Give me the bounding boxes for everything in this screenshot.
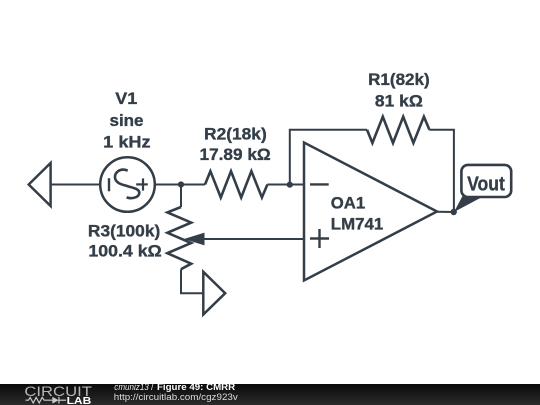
svg-text:100.4 kΩ: 100.4 kΩ [88, 242, 161, 261]
wire op-amp output [437, 211, 454, 213]
svg-text:V1: V1 [115, 89, 137, 108]
svg-text:R3(100k): R3(100k) [88, 221, 160, 240]
svg-text:81 kΩ: 81 kΩ [375, 91, 423, 110]
svg-text:R2(18k): R2(18k) [204, 124, 267, 143]
node Vout [451, 209, 457, 215]
footer bar [0, 384, 540, 405]
wire V1 to node A [155, 184, 181, 186]
net flag (left) [29, 163, 51, 206]
svg-text:1 kHz: 1 kHz [103, 132, 150, 151]
op-amp OA1 [304, 143, 437, 281]
potentiometer R3 body [167, 207, 191, 269]
op-amp minus symbol [310, 183, 329, 185]
svg-text:http://circuitlab.com/cgz923v: http://circuitlab.com/cgz923v [114, 392, 239, 402]
svg-text:sine: sine [110, 111, 144, 130]
resistor R2 [205, 171, 267, 197]
svg-text:LAB: LAB [67, 396, 92, 405]
wire feedback up and left [290, 130, 367, 185]
wire R1 to output node [429, 130, 454, 212]
svg-text:R1(82k): R1(82k) [368, 70, 430, 89]
resistor R1 [367, 117, 429, 143]
net flag (bottom) [203, 272, 225, 315]
potentiometer R3 wiper arrow [184, 233, 205, 246]
flag Vout box [461, 165, 511, 197]
wire wiper to op-amp non-inverting input [203, 238, 305, 240]
wire R2 to op-amp inverting input [267, 184, 304, 186]
flag Vout tail [454, 196, 484, 212]
node A [178, 181, 184, 187]
wire node A down to R3 [180, 185, 182, 208]
svg-text:LM741: LM741 [331, 215, 384, 234]
svg-text:Vout: Vout [467, 173, 505, 196]
op-amp plus symbol [310, 237, 329, 239]
footer logo diode triangle [52, 397, 58, 404]
wire flag to V1 [51, 184, 101, 186]
node B [287, 182, 293, 188]
wire node A to R2 [181, 184, 205, 186]
footer logo schematic squiggle [26, 397, 67, 404]
svg-text:Figure 49: CMRR: Figure 49: CMRR [157, 382, 236, 392]
svg-text:OA1: OA1 [331, 194, 365, 213]
wire R3 bottom to net flag [181, 269, 203, 293]
svg-text:cmuniz13: cmuniz13 [114, 382, 149, 392]
voltage source V1 [100, 157, 155, 212]
svg-text:17.89 kΩ: 17.89 kΩ [200, 145, 271, 164]
